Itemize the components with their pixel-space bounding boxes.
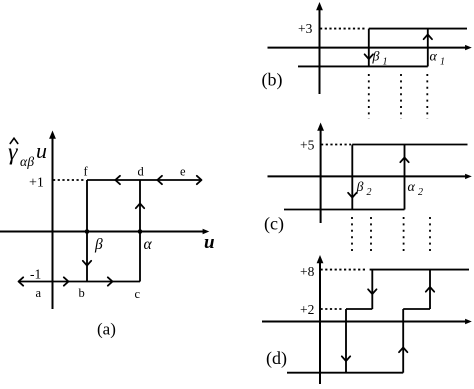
svg-text:α: α: [144, 236, 153, 253]
svg-text:α: α: [408, 180, 416, 195]
upper-right ascending vertical of (d): [429, 270, 431, 309]
node at beta on axis: [85, 229, 90, 234]
svg-text:α: α: [430, 50, 438, 65]
x-axis arrowhead (b): [465, 45, 472, 50]
dotted vertical at alpha1 position below (c): [429, 217, 431, 252]
bottom branch of (d): [287, 372, 403, 374]
svg-text:-1: -1: [30, 267, 41, 282]
node at alpha on axis: [138, 229, 143, 234]
left chevron at left end of bottom branch: [19, 277, 24, 285]
up chevron on upper ascending vertical: [426, 287, 434, 292]
svg-text:β: β: [356, 180, 364, 195]
lower-left descending vertical of (d): [345, 309, 347, 373]
dotted vertical at beta2 below (c): [351, 217, 353, 252]
right step at +2 of (d): [403, 308, 430, 310]
svg-text:+2: +2: [300, 302, 314, 317]
dotted vertical at alpha1 below (b): [426, 74, 428, 119]
y-axis of (b): [319, 8, 321, 94]
upper-left descending vertical of (d): [371, 270, 373, 309]
svg-text:+8: +8: [300, 264, 315, 279]
y-axis of (d): [319, 261, 321, 384]
top branch of (b): [369, 28, 467, 30]
right chevron between b and c: [108, 277, 113, 285]
x-axis arrowhead (c): [465, 174, 472, 179]
svg-text:1: 1: [440, 57, 445, 68]
dotted vertical at beta1 below (b): [368, 74, 370, 119]
bottom branch of (b): [298, 65, 428, 67]
down chevron on beta1 vertical: [365, 54, 373, 59]
svg-text:(b): (b): [262, 70, 283, 91]
y-axis arrowhead (c): [317, 123, 324, 131]
lower-right ascending vertical of (d): [402, 309, 404, 373]
svg-text:(c): (c): [264, 214, 284, 235]
left step at +2 of (d): [346, 308, 372, 310]
x-axis arrowhead (a): [203, 229, 210, 234]
down chevron on upper descending vertical: [368, 289, 376, 294]
svg-text:+3: +3: [298, 21, 313, 36]
dotted level line +8: [321, 269, 368, 271]
up chevron on alpha1 vertical: [424, 35, 432, 40]
x-axis of (c): [268, 175, 467, 177]
svg-text:+5: +5: [300, 138, 315, 153]
dotted level line at +1: [53, 179, 85, 181]
dotted vertical middle below (b): [400, 74, 402, 119]
left chevron arrow between d and e: [157, 176, 162, 184]
right chevron between a and b: [64, 277, 69, 285]
beta2 vertical of (c): [351, 145, 353, 210]
svg-text:b: b: [79, 286, 85, 300]
up chevron arrow on alpha vertical: [136, 204, 144, 209]
alpha2 vertical of (c): [404, 145, 406, 210]
dotted level line +5: [321, 144, 351, 146]
right chevron arrow at end of top branch: [197, 176, 202, 184]
svg-text:β: β: [372, 50, 380, 65]
svg-text:c: c: [135, 287, 141, 301]
y-axis of (c): [320, 129, 322, 223]
left chevron arrow between f and d: [115, 176, 120, 184]
beta1 vertical of (b): [368, 29, 370, 67]
svg-text:+1: +1: [29, 176, 44, 191]
svg-text:u: u: [36, 138, 47, 163]
dotted vertical at alpha2 below (c): [403, 217, 405, 252]
bottom branch of (c): [284, 209, 405, 211]
y-axis arrowhead (a): [49, 131, 56, 139]
dotted level line +2: [321, 308, 345, 310]
x-axis of (d): [262, 321, 466, 323]
bottom branch line a-b-c of (a): [19, 281, 140, 283]
down chevron arrow on beta vertical: [83, 261, 91, 266]
x-axis of (b): [268, 47, 467, 49]
up chevron on lower ascending vertical: [399, 348, 407, 353]
top branch of (d): [370, 269, 469, 271]
up chevron on alpha2 vertical: [400, 158, 408, 163]
y-axis arrowhead (d): [317, 255, 324, 263]
dotted level line +3: [320, 28, 366, 30]
top branch line f-d-e of (a): [87, 179, 201, 181]
beta vertical of (a): [86, 180, 88, 282]
top branch of (c): [352, 144, 467, 146]
svg-text:2: 2: [418, 187, 423, 198]
svg-text:β: β: [94, 236, 103, 253]
svg-text:(a): (a): [97, 320, 116, 339]
alpha vertical of (a): [139, 180, 141, 282]
dotted vertical at beta1 position below (c): [370, 217, 372, 252]
svg-text:(d): (d): [266, 348, 287, 369]
alpha1 vertical of (b): [427, 29, 429, 67]
x-axis arrowhead (d): [465, 319, 472, 325]
svg-text:d: d: [138, 165, 145, 179]
down chevron on beta2 vertical: [348, 193, 356, 198]
svg-text:1: 1: [383, 57, 388, 68]
svg-text:αβ: αβ: [20, 154, 34, 169]
svg-text:a: a: [36, 286, 42, 300]
svg-text:e: e: [180, 165, 186, 179]
y-axis arrowhead (b): [316, 2, 323, 10]
y-axis of (a): [52, 137, 54, 309]
svg-text:u: u: [204, 232, 215, 253]
x-axis of (a): [0, 231, 203, 233]
svg-text:2: 2: [367, 187, 372, 198]
down chevron on lower descending vertical: [342, 356, 350, 361]
